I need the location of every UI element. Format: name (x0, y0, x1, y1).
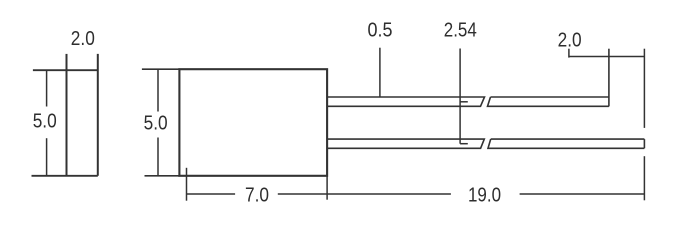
tick at bottom lead centerline (2.54) (460, 143, 468, 145)
main body bottom edge left extension for 5.0 dim (145, 175, 180, 177)
main body outline (7.0 x 5.0 rectangle) (179, 69, 327, 176)
side-view body right edge with extension up for 2.0 dim (97, 54, 99, 176)
2.0 bracket horizontal line (569, 56, 645, 58)
dimension line 5.0 (main body, upper part) (157, 69, 159, 111)
bottom dimension line segment (right of 19.0 text) (520, 193, 645, 195)
svg-text:5.0: 5.0 (144, 112, 168, 135)
side-view body top edge with left extension for 5.0 dim (33, 69, 98, 71)
svg-text:19.0: 19.0 (468, 184, 501, 207)
main body top edge left extension for 5.0 dim (142, 68, 180, 70)
svg-text:5.0: 5.0 (33, 109, 57, 132)
top lead segment 2 (after break, to end cap) (488, 97, 609, 106)
svg-text:0.5: 0.5 (368, 19, 393, 42)
svg-text:2.0: 2.0 (71, 27, 95, 50)
2.0 bracket right extension upper part (643, 49, 645, 128)
dimension line 5.0 (main body, lower part) (157, 138, 159, 176)
bottom dimension line segment (left of 7.0 text) (187, 193, 236, 195)
dimension line 5.0 (side view, lower part) (46, 138, 48, 176)
leader line for 2.54 down to bottom lead centerline (459, 49, 461, 144)
right extension lower part (to 19.0 dim line) (643, 156, 645, 200)
2.0 bracket left tick (568, 49, 570, 58)
svg-text:7.0: 7.0 (245, 184, 269, 207)
main body right edge extension down for 7.0/19.0 dims (326, 176, 328, 200)
bottom lead segment 2 (after break, to end cap) (488, 139, 644, 148)
side-view body bottom edge with left extension for 5.0 dim (32, 175, 98, 177)
7.0 dimension left extension tick (186, 168, 188, 201)
bottom dimension line segment (between 7.0 and 19.0 texts) (278, 193, 451, 195)
leader line for 0.5 down to top lead (379, 48, 381, 98)
top lead segment 1 (hollow bar with slanted break cut) (327, 97, 484, 106)
svg-text:2.54: 2.54 (444, 19, 477, 42)
side-view body outline (2.0 x 5.0 rectangle), left edge with extension up for 2.0 dim (66, 54, 68, 176)
tick at top lead centerline (2.54) (460, 101, 468, 103)
bottom lead segment 1 (hollow bar with slanted break cut) (327, 139, 484, 148)
svg-text:2.0: 2.0 (558, 29, 582, 52)
2.0 bracket middle extension down to top lead end cap (608, 49, 610, 107)
dimension line 5.0 (side view, upper part) (46, 70, 48, 106)
